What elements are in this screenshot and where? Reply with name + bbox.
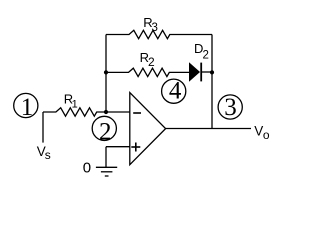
junction dot: D2 cathode x right vertical	[210, 70, 214, 74]
label R3	[143, 15, 158, 34]
wire: output from op-amp apex to Vo	[166, 128, 251, 130]
ground (node 0)	[96, 147, 117, 176]
resistor R1 (input)	[43, 108, 130, 116]
svg-text:s: s	[45, 148, 51, 162]
svg-text:o: o	[263, 128, 270, 142]
diode D2	[190, 63, 213, 82]
wire: right feedback vertical from R3 row down to output node	[211, 35, 213, 129]
label D2	[194, 41, 209, 62]
node 4 bubble	[162, 78, 186, 105]
svg-text:2: 2	[99, 118, 112, 145]
svg-text:2: 2	[148, 55, 155, 69]
junction dot: R1 / feedback / op-amp inverting input	[104, 110, 108, 114]
label R1	[64, 92, 78, 111]
label 0 (ground node)	[83, 160, 91, 177]
svg-text:3: 3	[224, 94, 237, 121]
op-amp U1 triangle	[130, 93, 166, 165]
node 3 bubble	[218, 94, 242, 121]
wire: non-inverting input from ground stem	[106, 146, 130, 148]
label R2	[140, 50, 155, 69]
svg-text:V: V	[254, 123, 263, 138]
wire: Vs stub vertical	[42, 112, 44, 143]
svg-text:2: 2	[203, 50, 209, 62]
svg-text:1: 1	[72, 98, 78, 110]
svg-text:4: 4	[169, 78, 182, 105]
resistor R2 (second feedback branch)	[106, 68, 190, 76]
op-amp inverting input sign	[133, 112, 141, 114]
node 2 bubble	[92, 116, 116, 145]
label Vs	[37, 144, 51, 162]
resistor R3 (top feedback branch)	[106, 30, 212, 38]
svg-text:0: 0	[83, 160, 91, 177]
wire: left feedback vertical from R1 junction up to R3 row	[105, 35, 107, 113]
svg-text:3: 3	[152, 22, 158, 34]
op-amp non-inverting input sign	[131, 143, 140, 152]
junction dot: left vertical x R2 row	[104, 70, 108, 74]
svg-text:1: 1	[21, 94, 34, 121]
label Vo	[254, 123, 270, 142]
node 1 bubble	[14, 93, 38, 121]
